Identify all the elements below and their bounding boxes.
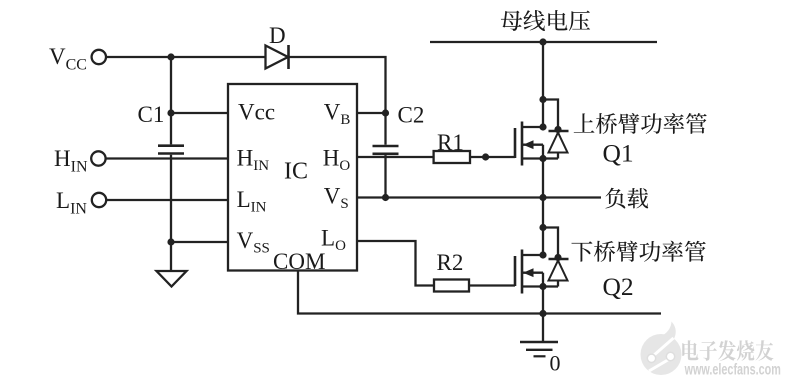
- transistor Q2 channel bar: [521, 250, 524, 294]
- svg-text:Q2: Q2: [603, 272, 634, 301]
- capacitor C1: [158, 146, 184, 154]
- node C2/VS junction: [382, 194, 389, 201]
- node C1/Vcc pin junction: [167, 109, 174, 116]
- transistor Q2 drain lead: [522, 254, 543, 256]
- svg-text:R2: R2: [437, 250, 464, 275]
- wire R1 to Q1 gate: [470, 156, 515, 158]
- label 负载 (load): [605, 188, 648, 209]
- wire HIN: [106, 157, 228, 159]
- ground (signal): [157, 271, 187, 287]
- label 上桥臂功率管 (high-side power FET): [574, 113, 707, 134]
- wire VB corner down to C2: [384, 113, 386, 145]
- wire VSS pin: [171, 241, 228, 243]
- svg-text:HIN: HIN: [54, 146, 88, 176]
- node Q2 drain-diode junction: [539, 224, 546, 231]
- wire VCC rail down: [170, 57, 172, 144]
- wire to power ground: [542, 314, 544, 342]
- terminal VCC: [92, 50, 106, 64]
- wire LIN: [106, 199, 228, 201]
- terminal LIN: [92, 193, 106, 207]
- op-amp U1 IC body: [228, 84, 357, 271]
- wire bus rail: [430, 41, 657, 43]
- transistor Q1 source arrow: [522, 140, 543, 158]
- node Q1 source junction: [539, 155, 546, 162]
- svg-text:LIN: LIN: [56, 188, 87, 218]
- svg-text:www.elecfans.com: www.elecfans.com: [684, 361, 781, 378]
- transistor Q1 drain lead: [522, 126, 543, 128]
- svg-text:D: D: [269, 23, 286, 48]
- svg-text:C1: C1: [138, 102, 165, 127]
- node COM/ground junction: [539, 310, 546, 317]
- transistor Q2 gate bar: [514, 256, 517, 286]
- node R1/gate junction: [482, 153, 489, 160]
- wire diode to VB corner: [289, 57, 386, 113]
- svg-text:Q1: Q1: [603, 139, 634, 168]
- node Q1 source junction: [539, 194, 546, 201]
- wire C2 to VS: [384, 155, 386, 197]
- node Q1 drain-diode junction: [539, 96, 546, 103]
- body diode of Q2: [543, 254, 569, 287]
- wire VS to load: [357, 196, 601, 198]
- resistor R2: [434, 280, 469, 292]
- svg-text:IC: IC: [284, 159, 308, 185]
- wire Q2 body-diode jog: [543, 228, 558, 259]
- node Q2 drain stub: [539, 251, 546, 258]
- node Q1 drain stub: [539, 123, 546, 130]
- terminal HIN: [91, 151, 105, 165]
- watermark logo: [641, 322, 682, 376]
- transistor Q1 source lead: [522, 157, 543, 159]
- svg-text:VCC: VCC: [49, 44, 87, 74]
- wire HO pin to R1: [357, 156, 434, 158]
- svg-text:COM: COM: [273, 249, 325, 274]
- wire Q1 body-diode jog: [543, 100, 558, 131]
- wire VB pin: [357, 112, 386, 114]
- wire Vcc pin: [171, 112, 228, 114]
- node VB/C2 junction: [382, 109, 389, 116]
- diode D: [266, 45, 289, 69]
- body diode of Q1: [543, 126, 569, 159]
- ground (power, 0): [520, 342, 558, 356]
- wire LO pin to R2: [357, 241, 434, 286]
- wire VS to Q2 drain: [542, 198, 544, 256]
- resistor R1: [434, 151, 470, 163]
- watermark 电子发烧友: [682, 340, 773, 361]
- wire VCC to diode: [106, 56, 266, 58]
- wire bus to Q1 drain: [542, 42, 544, 127]
- node bus junction: [539, 38, 546, 45]
- node Q2 source junction: [539, 283, 546, 290]
- wire COM down: [298, 271, 661, 314]
- svg-text:0: 0: [550, 351, 561, 376]
- wire C1 down to ground rail: [170, 155, 172, 271]
- label 下桥臂功率管 (low-side power FET): [571, 241, 705, 262]
- wire Q1 source to VS: [542, 159, 544, 198]
- capacitor C2: [373, 146, 399, 154]
- wire R2 to Q2 gate: [469, 284, 515, 286]
- transistor Q2 source lead: [522, 285, 543, 287]
- node VCC junction: [167, 53, 174, 60]
- label 母线电压 (bus voltage): [501, 10, 590, 31]
- transistor Q2 source arrow: [522, 268, 543, 286]
- wire Q2 source to COM rail: [542, 287, 544, 314]
- transistor Q1 gate bar: [514, 128, 517, 158]
- transistor Q1 channel bar: [521, 122, 524, 166]
- svg-text:Vcc: Vcc: [238, 100, 275, 125]
- node VSS junction: [167, 238, 174, 245]
- svg-text:C2: C2: [398, 103, 425, 128]
